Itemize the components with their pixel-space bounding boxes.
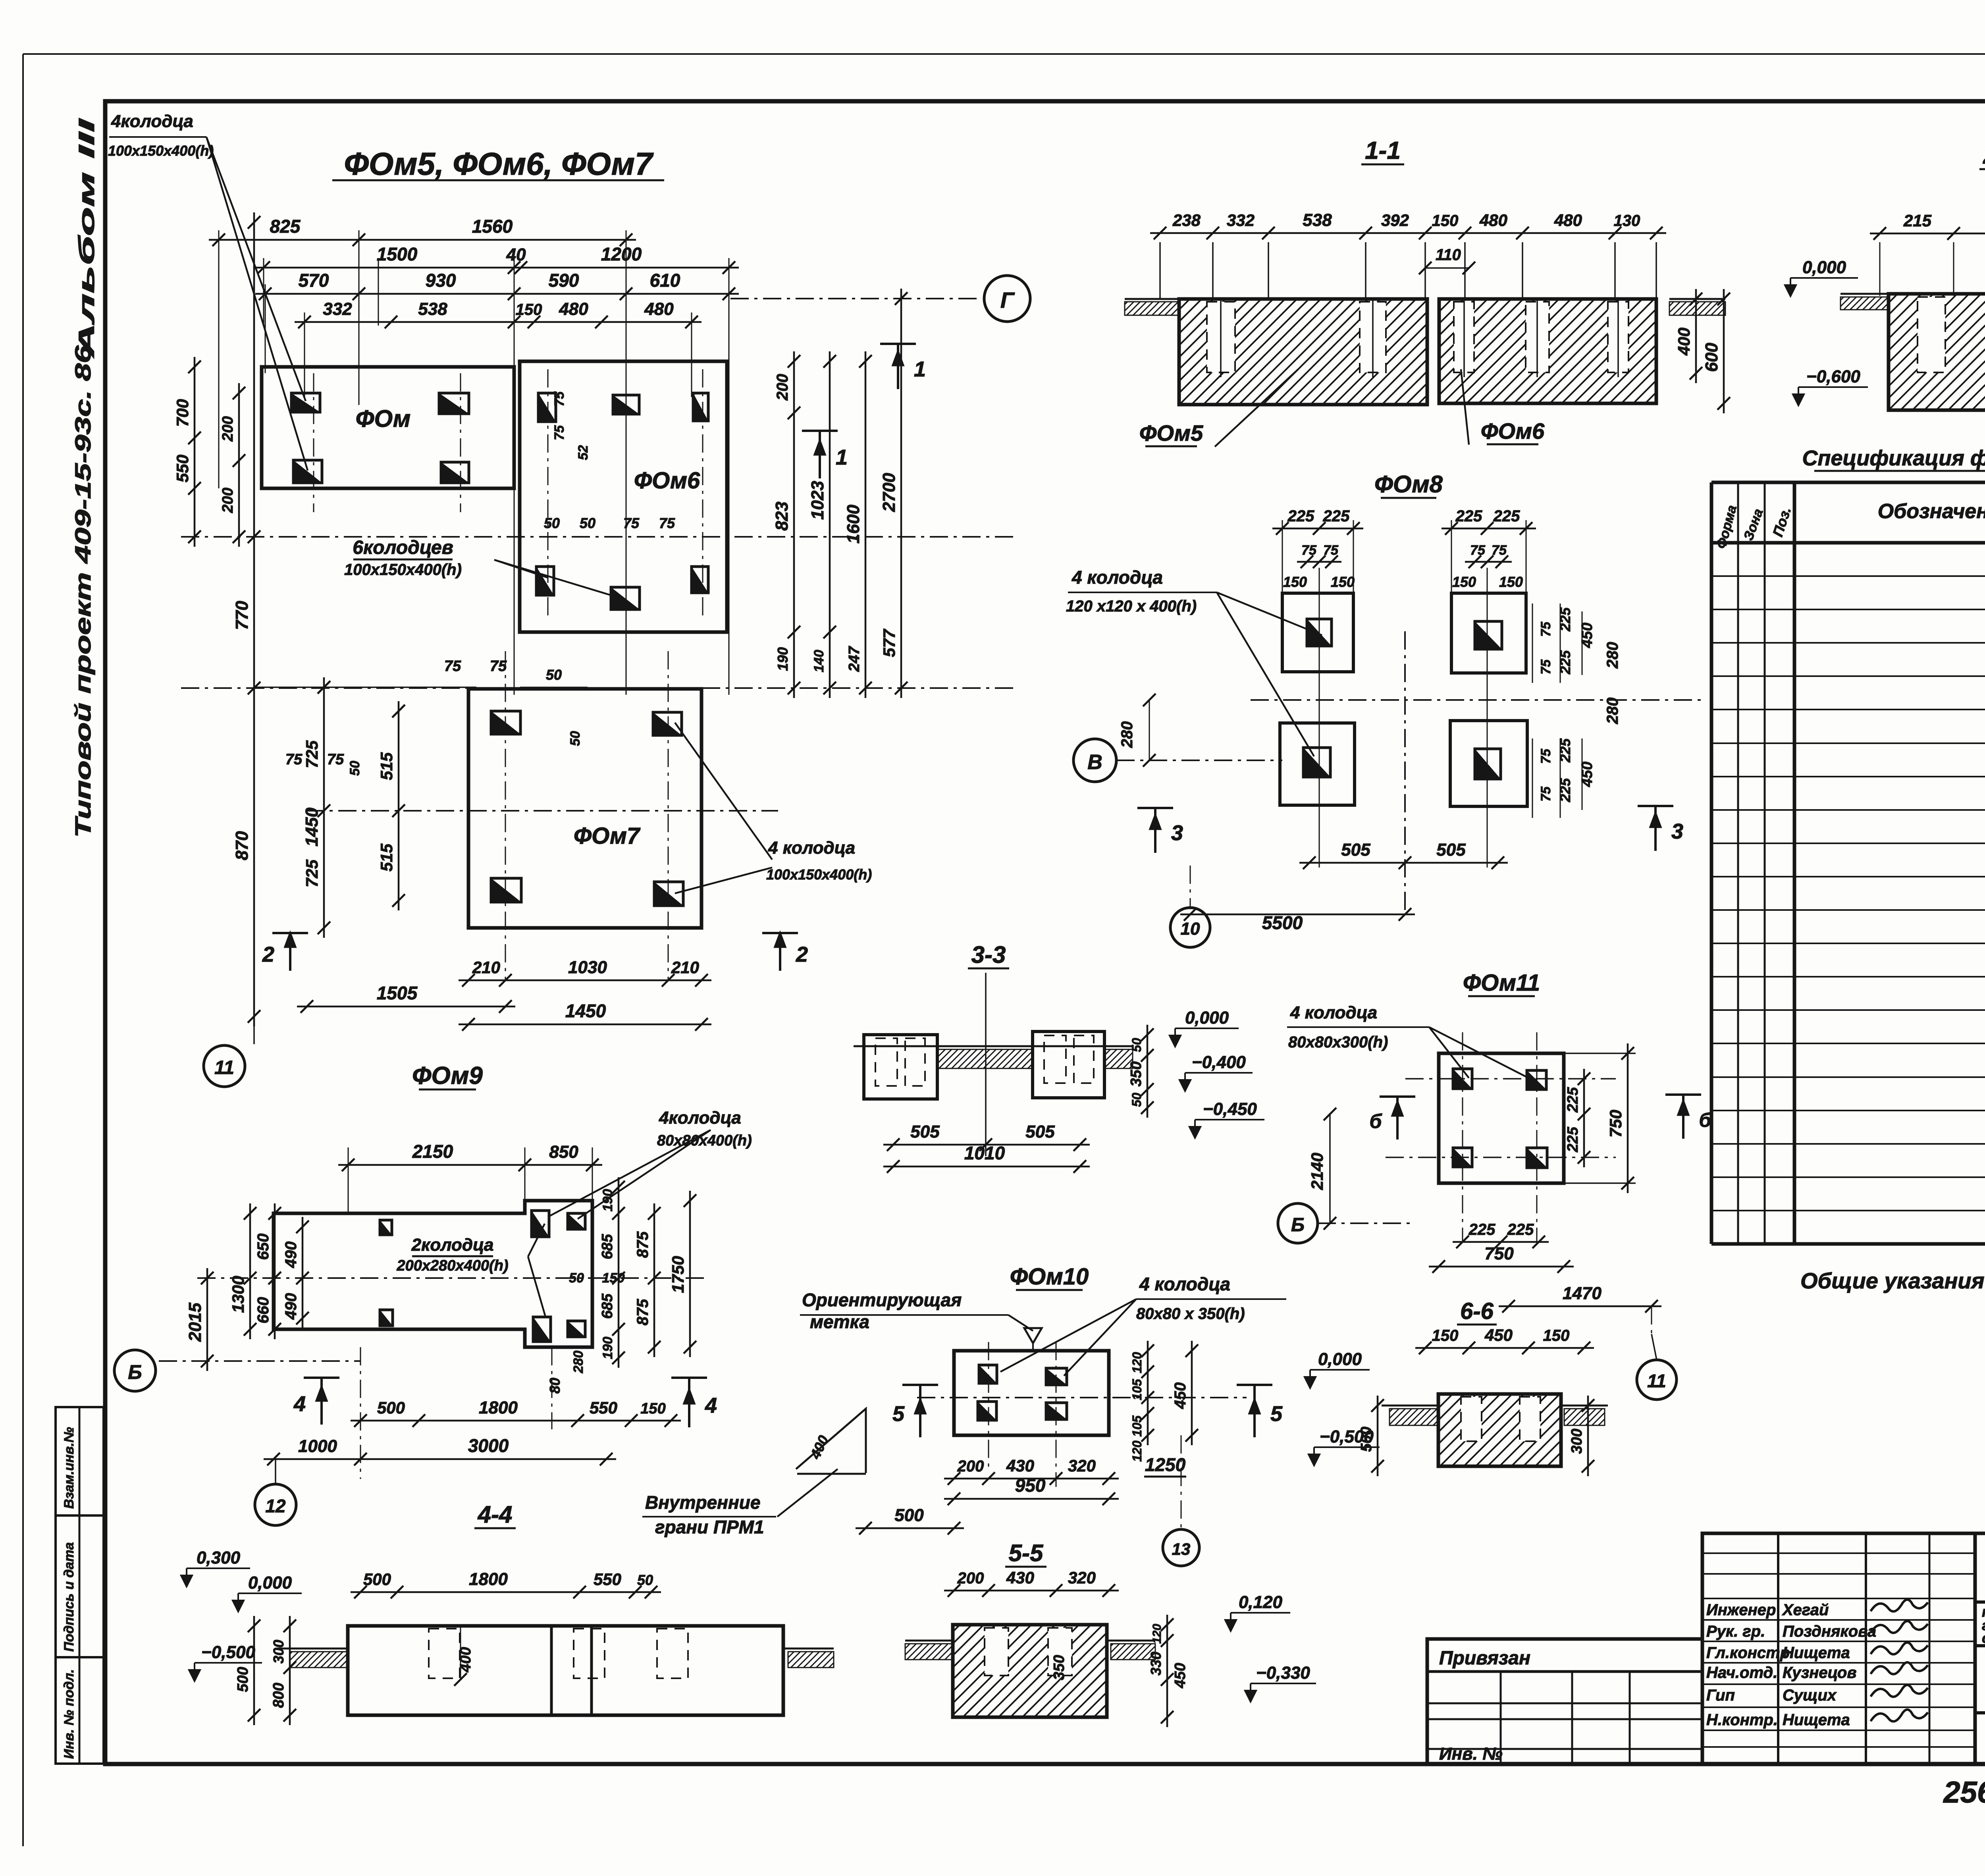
svg-text:1800: 1800 <box>479 1398 518 1417</box>
svg-text:80х80х300(h): 80х80х300(h) <box>1288 1033 1388 1051</box>
svg-text:660: 660 <box>254 1297 272 1324</box>
svg-text:13: 13 <box>1172 1540 1191 1558</box>
svg-text:225: 225 <box>1455 507 1482 525</box>
svg-text:500: 500 <box>235 1667 251 1692</box>
svg-text:0,000: 0,000 <box>1802 258 1846 277</box>
svg-text:б: б <box>1370 1110 1383 1132</box>
svg-text:1300: 1300 <box>229 1276 247 1313</box>
svg-text:538: 538 <box>1303 210 1332 230</box>
svg-text:505: 505 <box>910 1122 940 1141</box>
svg-text:12: 12 <box>265 1496 286 1516</box>
svg-text:120: 120 <box>1130 1440 1144 1462</box>
svg-text:150: 150 <box>1331 574 1355 590</box>
svg-text:505: 505 <box>1436 840 1466 860</box>
svg-text:320: 320 <box>1068 1568 1096 1587</box>
svg-text:Общие указания см. лист 2: Общие указания см. лист 24 <box>1800 1268 1985 1293</box>
svg-text:500: 500 <box>1358 1427 1375 1452</box>
svg-text:100х150х400(h): 100х150х400(h) <box>344 561 462 578</box>
svg-text:225: 225 <box>1469 1221 1495 1238</box>
svg-text:75: 75 <box>552 391 567 407</box>
svg-text:0,120: 0,120 <box>1239 1593 1283 1612</box>
svg-text:950: 950 <box>1015 1475 1046 1496</box>
svg-text:685: 685 <box>599 1234 616 1259</box>
svg-text:1505: 1505 <box>377 983 418 1003</box>
plan FOm7 <box>468 689 701 928</box>
svg-text:25665-03: 25665-03 <box>1943 1776 1985 1809</box>
svg-text:0,000: 0,000 <box>248 1573 292 1593</box>
svg-text:ФОм10: ФОм10 <box>1010 1264 1089 1290</box>
svg-text:сейсмичностью 7,8,9 баллов ): сейсмичностью 7,8,9 баллов ) <box>1982 1630 1985 1646</box>
svg-text:1500: 1500 <box>377 244 418 264</box>
svg-text:Ориентирующая: Ориентирующая <box>802 1290 962 1310</box>
svg-text:450: 450 <box>1172 1382 1189 1409</box>
svg-text:1450: 1450 <box>565 1001 606 1021</box>
svg-text:750: 750 <box>1606 1110 1625 1138</box>
svg-text:4 колодца: 4 колодца <box>768 838 855 858</box>
svg-text:5: 5 <box>1270 1402 1283 1426</box>
svg-text:150: 150 <box>1543 1327 1570 1344</box>
svg-text:392: 392 <box>1381 211 1409 229</box>
svg-text:190: 190 <box>600 1189 615 1212</box>
svg-text:105: 105 <box>1130 1415 1144 1437</box>
svg-text:225: 225 <box>1287 507 1314 525</box>
svg-text:−0,600: −0,600 <box>1806 367 1860 386</box>
svg-text:Н.контр.: Н.контр. <box>1706 1711 1778 1729</box>
svg-text:Нищета: Нищета <box>1783 1711 1850 1729</box>
svg-text:10: 10 <box>1181 919 1200 939</box>
svg-text:300: 300 <box>1569 1429 1585 1454</box>
svg-text:550: 550 <box>173 455 192 482</box>
svg-text:515: 515 <box>377 843 396 871</box>
svg-text:200: 200 <box>220 488 236 513</box>
svg-text:480: 480 <box>1479 211 1507 229</box>
svg-text:ФОм6: ФОм6 <box>634 468 700 494</box>
svg-text:105: 105 <box>1130 1379 1144 1400</box>
svg-text:450: 450 <box>1484 1326 1513 1344</box>
svg-text:75: 75 <box>490 658 507 675</box>
svg-text:Инженер: Инженер <box>1706 1601 1776 1619</box>
svg-text:480: 480 <box>644 299 674 319</box>
svg-text:Кузнецов: Кузнецов <box>1783 1664 1857 1681</box>
svg-text:4 колодца: 4 колодца <box>1139 1274 1230 1294</box>
svg-text:ФОм6: ФОм6 <box>1481 418 1545 443</box>
plan FOm5 / FOm6 <box>209 239 636 241</box>
svg-text:6-6: 6-6 <box>1460 1298 1494 1324</box>
svg-text:2140: 2140 <box>1308 1153 1326 1190</box>
svg-text:800: 800 <box>270 1683 287 1708</box>
svg-text:1200: 1200 <box>601 244 642 264</box>
svg-text:52: 52 <box>576 445 591 460</box>
svg-text:1800: 1800 <box>469 1569 508 1589</box>
svg-text:200: 200 <box>774 374 791 401</box>
svg-text:Б: Б <box>128 1361 142 1383</box>
svg-text:6колодцев: 6колодцев <box>353 537 453 558</box>
svg-text:ФОм5, ФОм6, ФОм7: ФОм5, ФОм6, ФОм7 <box>344 146 654 181</box>
svg-text:1: 1 <box>836 445 848 469</box>
svg-text:280: 280 <box>571 1351 586 1374</box>
svg-text:225: 225 <box>1557 738 1573 763</box>
svg-text:4колодца: 4колодца <box>659 1108 741 1128</box>
svg-text:1-1: 1-1 <box>1365 137 1401 164</box>
svg-text:4: 4 <box>293 1392 306 1416</box>
svg-text:770: 770 <box>232 601 252 630</box>
svg-text:б: б <box>1699 1109 1712 1131</box>
svg-text:1450: 1450 <box>302 808 322 846</box>
svg-text:500: 500 <box>377 1398 405 1417</box>
svg-text:238: 238 <box>1172 211 1201 229</box>
svg-text:400: 400 <box>1675 328 1693 356</box>
svg-text:870: 870 <box>232 831 252 860</box>
svg-text:75: 75 <box>1538 621 1553 637</box>
svg-text:450: 450 <box>1579 762 1596 787</box>
svg-text:280: 280 <box>1604 698 1621 725</box>
svg-text:1030: 1030 <box>568 958 607 977</box>
svg-text:Рук. гр.: Рук. гр. <box>1706 1623 1765 1640</box>
svg-text:225: 225 <box>1493 507 1520 525</box>
svg-text:120 х120 х 400(h): 120 х120 х 400(h) <box>1066 598 1197 615</box>
svg-text:400: 400 <box>457 1647 474 1672</box>
svg-text:Б: Б <box>1291 1215 1305 1236</box>
svg-text:225: 225 <box>1565 1126 1581 1152</box>
svg-text:610: 610 <box>650 270 680 291</box>
svg-text:130: 130 <box>1614 212 1640 229</box>
svg-text:Г: Г <box>1000 287 1015 312</box>
svg-text:280: 280 <box>1604 642 1621 669</box>
svg-text:2колодца: 2колодца <box>411 1235 494 1255</box>
svg-text:5500: 5500 <box>1262 912 1303 933</box>
svg-text:40: 40 <box>506 245 526 264</box>
svg-text:150: 150 <box>1283 574 1307 590</box>
sheet frame <box>23 53 1985 55</box>
svg-text:5: 5 <box>892 1402 905 1426</box>
svg-text:577: 577 <box>880 629 898 657</box>
svg-text:−0,450: −0,450 <box>1203 1099 1257 1119</box>
svg-text:140: 140 <box>811 650 827 673</box>
svg-text:500: 500 <box>363 1570 391 1589</box>
svg-text:875: 875 <box>634 1299 651 1325</box>
svg-text:50: 50 <box>580 515 595 531</box>
svg-text:725: 725 <box>303 740 321 768</box>
svg-text:Гип: Гип <box>1706 1687 1735 1704</box>
svg-text:50: 50 <box>569 1271 584 1286</box>
svg-text:75: 75 <box>1492 543 1507 558</box>
svg-text:ФОм9: ФОм9 <box>412 1062 483 1089</box>
svg-text:600: 600 <box>1702 343 1721 372</box>
svg-text:225: 225 <box>1557 650 1573 675</box>
svg-text:75: 75 <box>659 515 675 531</box>
svg-text:3-3: 3-3 <box>971 941 1006 968</box>
svg-text:Позднякова: Позднякова <box>1783 1623 1876 1640</box>
svg-text:110: 110 <box>1436 246 1461 264</box>
svg-text:1600: 1600 <box>844 505 863 544</box>
svg-text:120: 120 <box>1130 1352 1144 1373</box>
svg-text:150: 150 <box>1432 1327 1459 1344</box>
svg-text:75: 75 <box>1538 786 1553 802</box>
svg-text:200: 200 <box>957 1569 984 1587</box>
svg-text:200: 200 <box>220 416 236 442</box>
svg-text:100х150х400(h): 100х150х400(h) <box>108 143 214 159</box>
svg-text:505: 505 <box>1025 1122 1055 1141</box>
svg-text:1000: 1000 <box>298 1436 337 1456</box>
svg-text:4 колодца: 4 колодца <box>1290 1003 1377 1022</box>
svg-text:225: 225 <box>1323 507 1350 525</box>
svg-text:320: 320 <box>1068 1456 1096 1475</box>
svg-text:80х80 х 350(h): 80х80 х 350(h) <box>1136 1305 1245 1323</box>
svg-text:0,000: 0,000 <box>1185 1008 1229 1028</box>
svg-text:550: 550 <box>590 1398 617 1417</box>
svg-text:80: 80 <box>547 1378 563 1394</box>
svg-text:Гл.констр.: Гл.констр. <box>1706 1644 1794 1662</box>
svg-text:3: 3 <box>1171 821 1183 845</box>
svg-text:190: 190 <box>600 1337 615 1359</box>
svg-text:Привязан: Привязан <box>1439 1648 1530 1669</box>
svg-text:50: 50 <box>1129 1093 1144 1107</box>
svg-text:ФОм5: ФОм5 <box>1139 420 1203 445</box>
svg-text:190: 190 <box>775 647 791 671</box>
svg-text:2: 2 <box>796 943 808 966</box>
svg-text:75: 75 <box>444 658 461 675</box>
svg-text:3000: 3000 <box>468 1435 509 1456</box>
svg-text:4 колодца: 4 колодца <box>1072 567 1163 588</box>
svg-text:570: 570 <box>299 270 329 291</box>
svg-text:Типовой проект 409-15-93с. 86: Типовой проект 409-15-93с. 86 <box>70 345 95 838</box>
svg-text:490: 490 <box>282 1293 300 1320</box>
svg-text:875: 875 <box>634 1231 651 1258</box>
svg-text:Инв. №: Инв. № <box>1439 1744 1503 1764</box>
svg-text:225: 225 <box>1557 778 1573 802</box>
svg-text:930: 930 <box>426 270 456 291</box>
svg-text:Спецификация фундаментов под о: Спецификация фундаментов под оборудовани… <box>1802 446 1985 470</box>
svg-text:1010: 1010 <box>964 1143 1005 1163</box>
svg-text:450: 450 <box>1579 623 1596 648</box>
svg-text:50: 50 <box>1129 1038 1144 1052</box>
svg-text:Взам.инв.№: Взам.инв.№ <box>62 1427 77 1509</box>
svg-text:550: 550 <box>594 1570 621 1589</box>
svg-text:200х280х400(h): 200х280х400(h) <box>397 1257 509 1274</box>
svg-text:515: 515 <box>377 752 396 780</box>
svg-text:100х150х400(h): 100х150х400(h) <box>766 866 872 883</box>
svg-text:ФОм8: ФОм8 <box>1374 471 1443 497</box>
svg-text:50: 50 <box>546 667 562 683</box>
svg-text:150: 150 <box>640 1400 665 1417</box>
section 5-5 <box>944 1590 1119 1592</box>
svg-text:150: 150 <box>1432 212 1459 229</box>
svg-text:75: 75 <box>1301 543 1317 558</box>
svg-text:490: 490 <box>282 1242 300 1269</box>
svg-text:2015: 2015 <box>185 1303 205 1342</box>
svg-text:Альбом III: Альбом III <box>74 118 99 359</box>
svg-text:2: 2 <box>262 943 274 966</box>
svg-text:850: 850 <box>549 1142 578 1162</box>
svg-text:75: 75 <box>285 751 303 768</box>
svg-text:1023: 1023 <box>808 481 827 520</box>
svg-text:Внутренние: Внутренние <box>645 1492 760 1513</box>
svg-text:В: В <box>1087 751 1102 774</box>
svg-text:332: 332 <box>1227 211 1255 229</box>
svg-text:200: 200 <box>957 1458 984 1475</box>
svg-text:4: 4 <box>705 1394 717 1417</box>
svg-text:75: 75 <box>1538 659 1553 675</box>
svg-text:75: 75 <box>1470 543 1486 558</box>
svg-text:75: 75 <box>327 751 344 768</box>
svg-text:825: 825 <box>270 216 301 237</box>
svg-text:50: 50 <box>637 1572 653 1588</box>
svg-text:−0,330: −0,330 <box>1256 1663 1310 1683</box>
svg-text:75: 75 <box>1323 543 1339 558</box>
svg-text:1250: 1250 <box>1145 1454 1186 1475</box>
svg-text:−0,500: −0,500 <box>201 1643 255 1662</box>
svg-text:Нач.отд.: Нач.отд. <box>1706 1664 1777 1681</box>
svg-text:2700: 2700 <box>879 473 899 512</box>
svg-text:750: 750 <box>1484 1244 1514 1263</box>
svg-text:5-5: 5-5 <box>1009 1540 1044 1566</box>
svg-text:823: 823 <box>772 501 792 530</box>
svg-text:210: 210 <box>671 958 699 977</box>
svg-text:50: 50 <box>544 515 560 531</box>
svg-text:1560: 1560 <box>472 216 513 237</box>
svg-text:ФОм11: ФОм11 <box>1463 970 1540 996</box>
svg-text:75: 75 <box>1538 748 1553 764</box>
svg-text:3: 3 <box>1671 819 1683 843</box>
svg-text:11: 11 <box>1647 1371 1666 1391</box>
svg-text:150: 150 <box>1452 574 1476 590</box>
svg-text:4колодца: 4колодца <box>111 112 193 131</box>
svg-text:1470: 1470 <box>1563 1284 1601 1303</box>
svg-text:ФОм: ФОм <box>356 405 411 432</box>
svg-text:Подпись и дата: Подпись и дата <box>62 1542 77 1652</box>
svg-text:Нищета: Нищета <box>1783 1644 1850 1662</box>
svg-text:11: 11 <box>214 1057 234 1078</box>
svg-text:450: 450 <box>1172 1663 1189 1688</box>
svg-text:грани ПРМ1: грани ПРМ1 <box>655 1517 764 1537</box>
svg-text:150: 150 <box>1499 574 1523 590</box>
svg-text:247: 247 <box>846 646 863 672</box>
svg-text:590: 590 <box>549 270 579 291</box>
svg-text:430: 430 <box>1006 1568 1034 1587</box>
svg-text:215: 215 <box>1903 211 1932 230</box>
svg-text:725: 725 <box>303 859 321 887</box>
svg-text:75: 75 <box>552 425 567 440</box>
svg-text:500: 500 <box>894 1506 924 1525</box>
svg-text:0,000: 0,000 <box>1318 1350 1362 1369</box>
svg-text:ФОм7: ФОм7 <box>574 823 641 849</box>
svg-text:280: 280 <box>1118 721 1136 748</box>
svg-text:Инв. № подл.: Инв. № подл. <box>62 1669 77 1759</box>
svg-text:225: 225 <box>1565 1087 1581 1112</box>
svg-text:685: 685 <box>599 1293 616 1319</box>
svg-text:430: 430 <box>1006 1456 1034 1475</box>
svg-text:50: 50 <box>347 761 362 776</box>
svg-text:4-4: 4-4 <box>478 1501 513 1528</box>
svg-text:480: 480 <box>559 299 588 319</box>
svg-text:50: 50 <box>568 731 583 746</box>
svg-text:метка: метка <box>810 1311 869 1332</box>
svg-text:Обозначение: Обозначение <box>1878 500 1985 523</box>
svg-text:480: 480 <box>1554 211 1582 229</box>
svg-text:330: 330 <box>1148 1652 1164 1675</box>
svg-text:332: 332 <box>323 299 352 319</box>
svg-text:350: 350 <box>1051 1655 1068 1680</box>
svg-text:210: 210 <box>472 958 500 977</box>
svg-text:350: 350 <box>1128 1061 1145 1086</box>
title block <box>1427 1639 1702 1764</box>
svg-text:−0,400: −0,400 <box>1192 1053 1246 1072</box>
svg-text:75: 75 <box>623 515 640 531</box>
svg-text:120: 120 <box>1151 1624 1164 1644</box>
svg-text:150: 150 <box>516 301 542 318</box>
svg-text:650: 650 <box>254 1234 272 1260</box>
svg-text:1: 1 <box>914 357 926 381</box>
svg-text:505: 505 <box>1341 840 1370 860</box>
svg-text:0,300: 0,300 <box>197 1548 241 1568</box>
svg-text:225: 225 <box>1557 607 1573 632</box>
svg-text:2-2: 2-2 <box>1983 142 1985 169</box>
svg-text:2150: 2150 <box>412 1141 453 1162</box>
svg-text:538: 538 <box>418 299 447 319</box>
svg-text:225: 225 <box>1507 1221 1534 1238</box>
svg-text:300: 300 <box>270 1640 287 1664</box>
svg-text:1750: 1750 <box>669 1256 687 1293</box>
svg-text:Хегай: Хегай <box>1782 1601 1829 1619</box>
svg-text:Сущих: Сущих <box>1783 1687 1837 1704</box>
svg-text:700: 700 <box>173 399 192 427</box>
